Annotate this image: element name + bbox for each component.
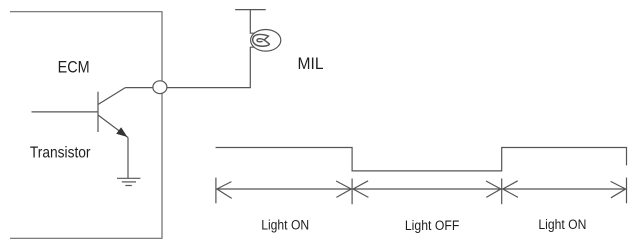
transistor emitter xyxy=(98,115,128,138)
tick 2 xyxy=(351,179,353,205)
axis line xyxy=(216,188,627,190)
lamp MIL bulb xyxy=(251,30,281,52)
svg-text:Light OFF: Light OFF xyxy=(405,218,460,233)
wire: emitter to ground xyxy=(127,138,129,179)
transistor emitter arrow xyxy=(117,128,127,137)
svg-text:MIL: MIL xyxy=(298,55,324,73)
node: junction circle on ECM edge xyxy=(153,81,167,94)
transistor base bar xyxy=(97,92,99,132)
svg-text:Transistor: Transistor xyxy=(30,145,91,162)
ground xyxy=(117,178,140,185)
arrowhead: tick2 pointing left xyxy=(353,181,368,198)
arrowhead: left end pointing left xyxy=(217,182,232,199)
arrowhead: right end pointing right xyxy=(611,181,626,197)
wire: rail to lamp xyxy=(250,10,254,34)
arrowhead: tick2 pointing right xyxy=(336,181,351,197)
tick 3 xyxy=(501,179,503,205)
tick 4 xyxy=(626,178,628,204)
arrowhead: tick3 pointing left xyxy=(503,181,518,198)
transistor collector xyxy=(98,88,125,105)
svg-text:Light ON: Light ON xyxy=(261,218,309,233)
wire: base lead xyxy=(32,111,99,113)
wire: collector to node xyxy=(125,87,160,89)
ECM box xyxy=(10,12,162,239)
waveform: MIL drive signal xyxy=(216,148,627,171)
tick 1 xyxy=(215,178,217,204)
svg-text:Light ON: Light ON xyxy=(538,217,586,232)
arrowhead: tick3 pointing right xyxy=(486,181,501,197)
svg-text:ECM: ECM xyxy=(58,58,90,76)
power rail bar xyxy=(235,9,266,11)
lamp filament xyxy=(253,34,270,46)
wire: node to lamp xyxy=(166,47,254,87)
